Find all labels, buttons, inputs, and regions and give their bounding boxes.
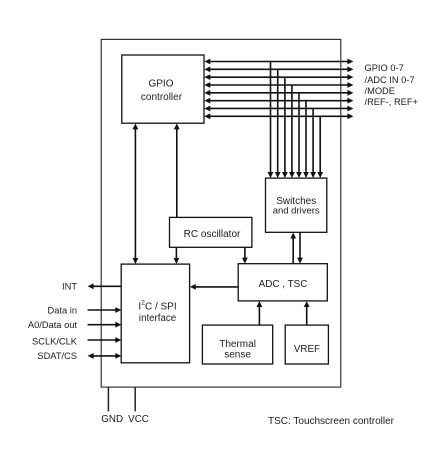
svg-text:GPIO 0-7: GPIO 0-7 (365, 63, 404, 73)
svg-text:controller: controller (141, 92, 183, 103)
svg-text:sense: sense (224, 349, 251, 360)
svg-text:SDAT/CS: SDAT/CS (37, 351, 77, 361)
svg-text:TSC: Touchscreen controller: TSC: Touchscreen controller (268, 416, 395, 427)
svg-text:RC oscillator: RC oscillator (184, 229, 241, 240)
svg-text:and drivers: and drivers (273, 206, 320, 217)
svg-text:ADC , TSC: ADC , TSC (259, 279, 308, 290)
svg-text:VCC: VCC (128, 414, 149, 425)
svg-text:SCLK/CLK: SCLK/CLK (32, 336, 78, 346)
svg-text:VREF: VREF (294, 344, 320, 355)
svg-text:/ADC IN 0-7: /ADC IN 0-7 (365, 75, 415, 85)
svg-text:INT: INT (62, 282, 77, 292)
svg-text:I2C / SPI: I2C / SPI (138, 300, 176, 313)
svg-text:GPIO: GPIO (148, 79, 173, 90)
svg-text:GND: GND (101, 414, 123, 425)
svg-text:/MODE: /MODE (365, 86, 395, 96)
svg-text:/REF-, REF+: /REF-, REF+ (365, 97, 418, 107)
svg-text:Data in: Data in (48, 305, 77, 315)
svg-text:A0/Data out: A0/Data out (28, 320, 78, 330)
svg-text:interface: interface (139, 313, 176, 324)
